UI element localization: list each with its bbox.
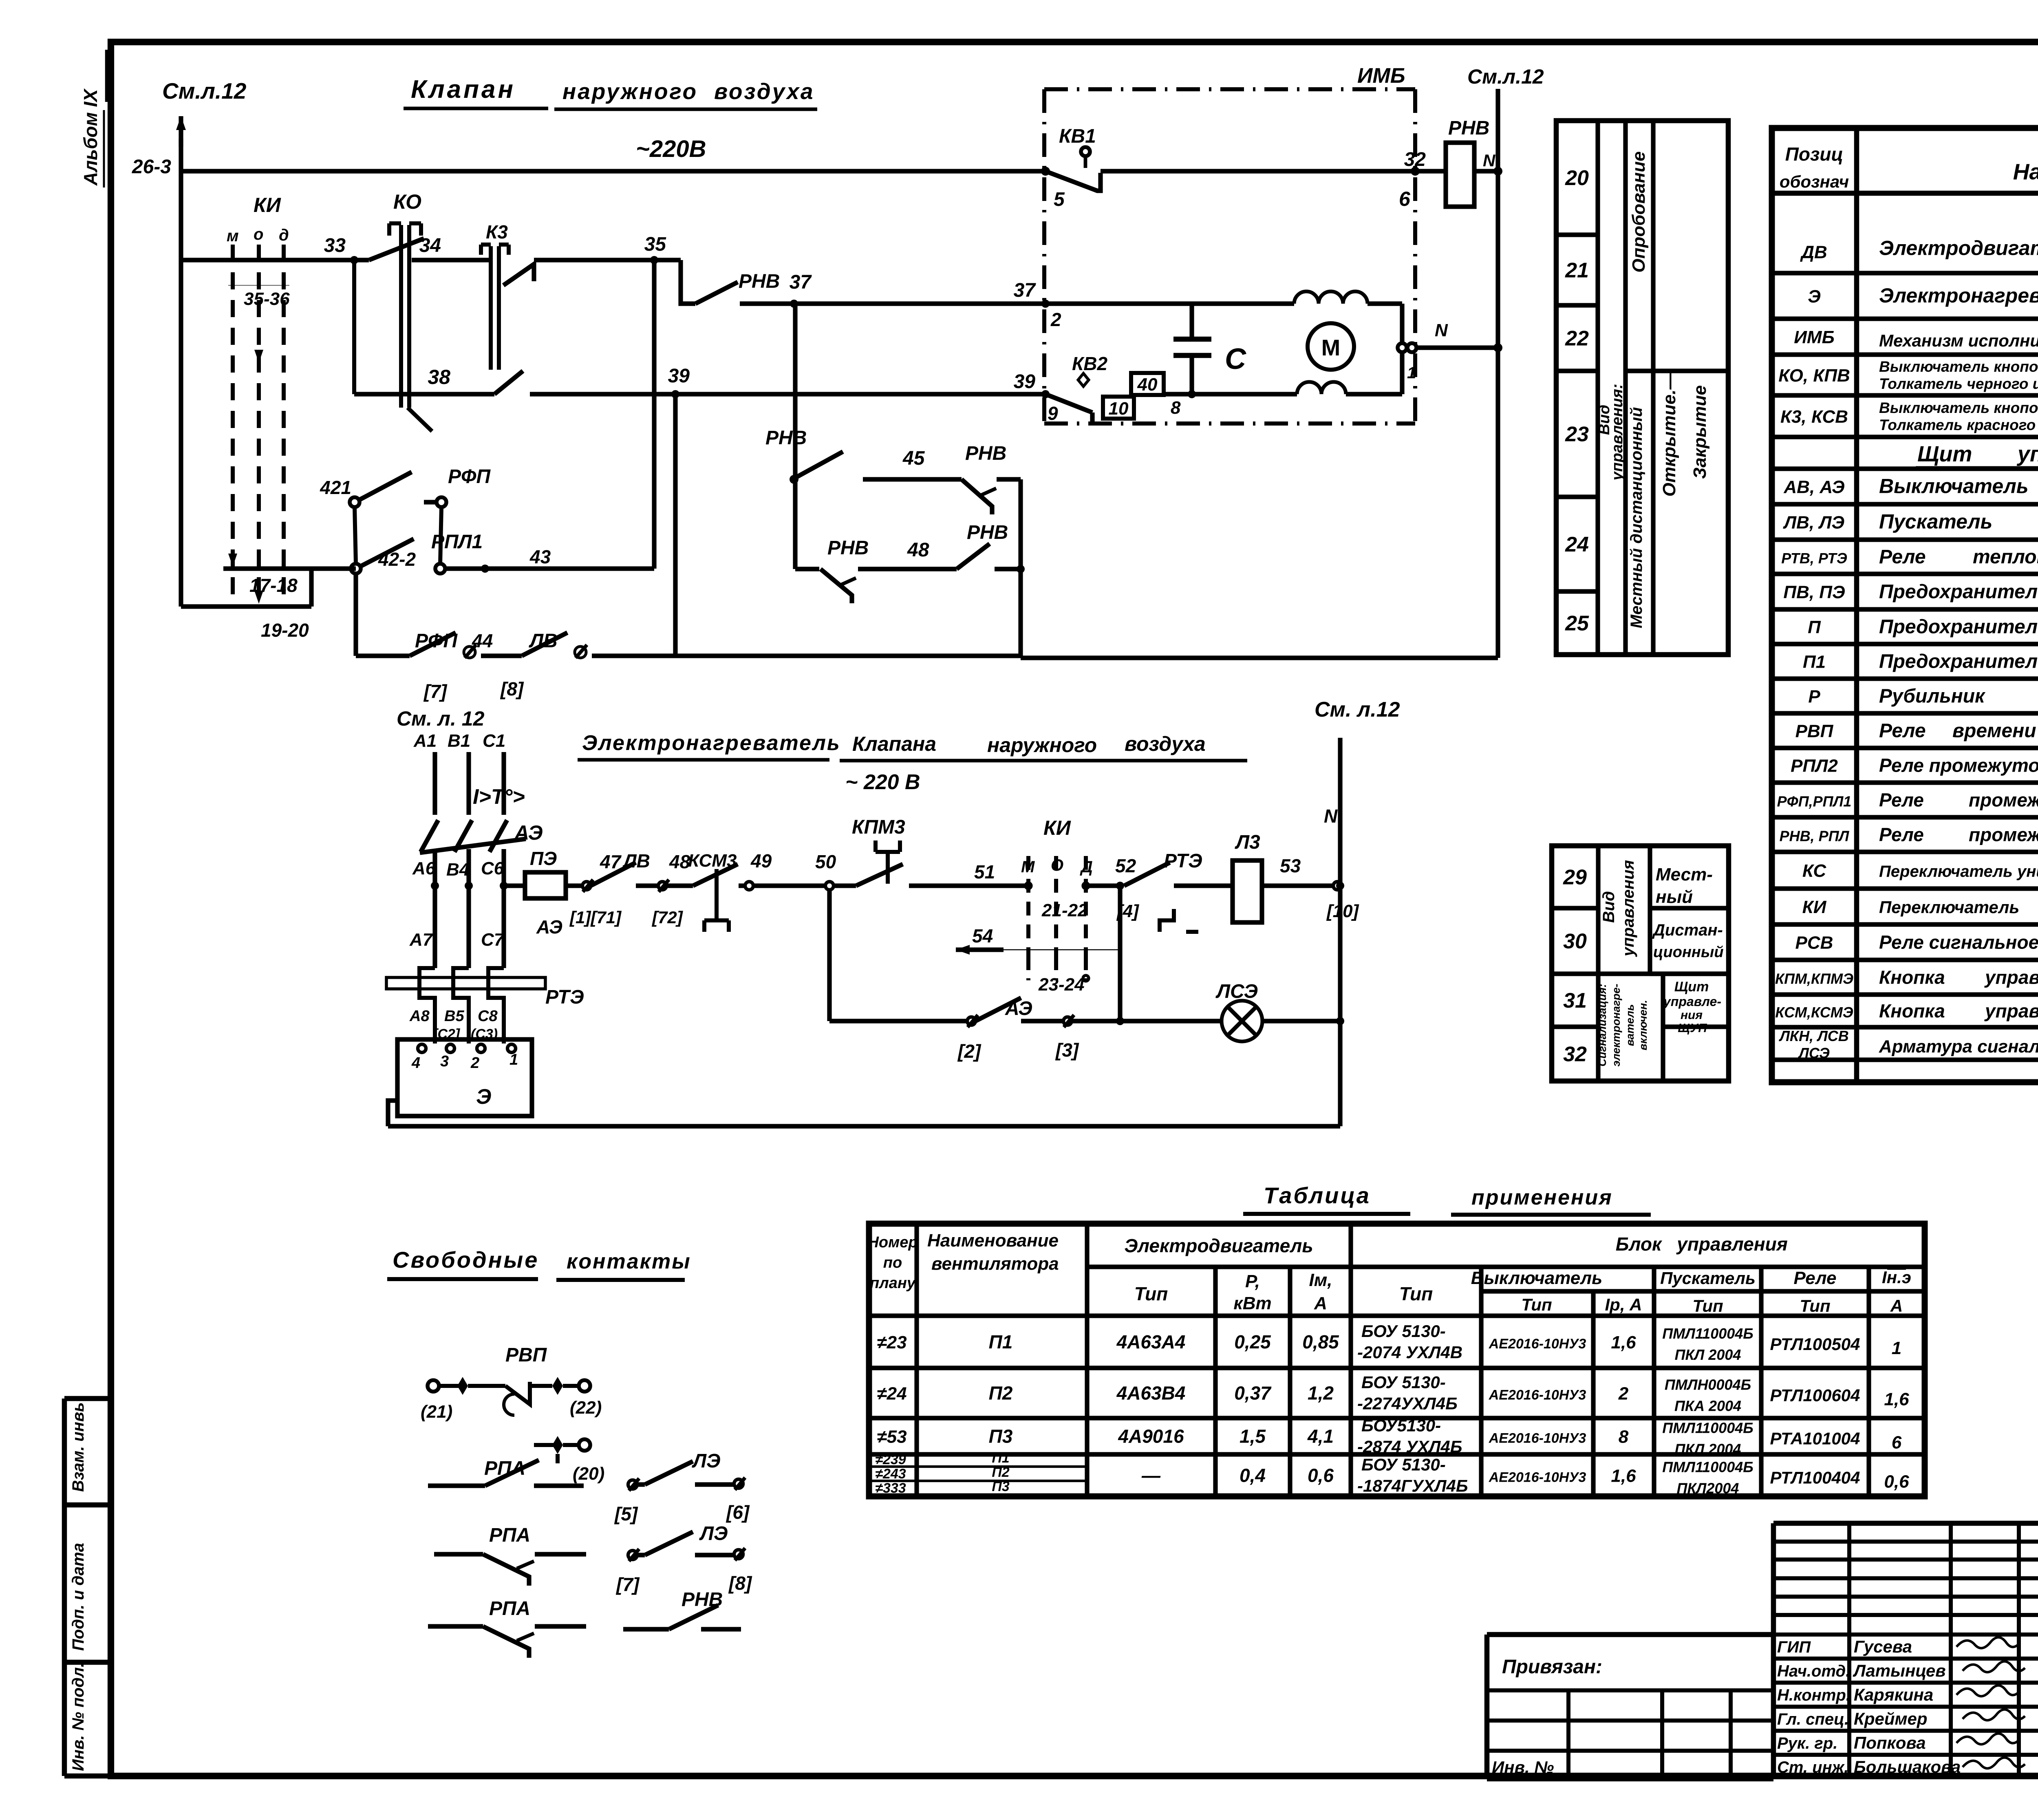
svg-text:Э: Э (1808, 287, 1821, 307)
svg-text:П3: П3 (989, 1426, 1013, 1447)
svg-text:1: 1 (509, 1051, 518, 1068)
svg-text:Реле промежуточное: Реле промежуточное (1879, 755, 2038, 776)
svg-text:БОУ5130-: БОУ5130- (1361, 1416, 1441, 1435)
svg-text:Механизм исполнительный: Механизм исполнительный (1879, 331, 2038, 350)
svg-text:ПЭ: ПЭ (530, 848, 557, 869)
svg-text:С7: С7 (481, 930, 505, 950)
svg-text:ПМЛ110004Б: ПМЛ110004Б (1662, 1325, 1753, 1342)
svg-text:Электронагреватель: Электронагреватель (582, 731, 841, 755)
svg-text:А7: А7 (409, 930, 434, 950)
svg-text:РНВ: РНВ (765, 427, 807, 449)
svg-text:38: 38 (428, 366, 450, 388)
svg-text:РНВ: РНВ (739, 271, 780, 292)
svg-text:А1: А1 (413, 731, 437, 751)
svg-text:-1874ГУХЛ4Б: -1874ГУХЛ4Б (1357, 1476, 1468, 1496)
svg-text:8: 8 (1619, 1427, 1629, 1447)
svg-text:АЕ2016-10НУ3: АЕ2016-10НУ3 (1489, 1431, 1586, 1446)
svg-text:А6: А6 (412, 858, 436, 878)
svg-text:6: 6 (1399, 188, 1411, 210)
svg-text:5: 5 (1054, 189, 1065, 210)
svg-text:21-22: 21-22 (1041, 900, 1088, 920)
svg-text:Э: Э (476, 1085, 491, 1109)
svg-text:управления:: управления: (1609, 384, 1626, 481)
svg-text:КВ2: КВ2 (1072, 353, 1107, 374)
svg-text:-2274УХЛ4Б: -2274УХЛ4Б (1357, 1394, 1458, 1413)
svg-text:Таблица: Таблица (1264, 1182, 1371, 1208)
svg-text:≠243: ≠243 (875, 1466, 906, 1482)
svg-text:22: 22 (1565, 327, 1589, 351)
svg-text:АЕ2016-10НУ3: АЕ2016-10НУ3 (1489, 1336, 1586, 1352)
svg-text:30: 30 (1563, 930, 1587, 953)
svg-text:6: 6 (1892, 1433, 1902, 1453)
svg-text:43: 43 (529, 546, 551, 567)
svg-text:кВт: кВт (1233, 1293, 1271, 1313)
svg-text:ПМЛ110004Б: ПМЛ110004Б (1662, 1459, 1753, 1476)
svg-text:КИ: КИ (1043, 816, 1071, 839)
svg-text:4А63В4: 4А63В4 (1116, 1383, 1186, 1404)
svg-text:C: C (1225, 343, 1246, 375)
svg-text:[2]: [2] (957, 1041, 982, 1062)
svg-text:23-24: 23-24 (1038, 975, 1085, 995)
svg-text:плану: плану (870, 1275, 916, 1292)
svg-text:А8: А8 (409, 1008, 430, 1025)
svg-text:50: 50 (815, 851, 836, 872)
svg-text:П: П (1808, 618, 1821, 638)
svg-text:421: 421 (320, 477, 351, 498)
svg-text:Местный дистанционный: Местный дистанционный (1628, 407, 1645, 629)
svg-text:Н.контр.: Н.контр. (1777, 1686, 1851, 1704)
svg-text:ЛЭ: ЛЭ (692, 1450, 720, 1472)
svg-text:9: 9 (1048, 403, 1058, 424)
svg-text:48: 48 (669, 851, 690, 872)
svg-text:Реле: Реле (1879, 790, 1924, 811)
svg-text:I>T°>: I>T°> (473, 785, 525, 809)
svg-text:Тип: Тип (1134, 1283, 1168, 1304)
svg-text:ватель: ватель (1624, 1004, 1636, 1046)
svg-text:вентилятора: вентилятора (931, 1254, 1059, 1274)
svg-text:≠333: ≠333 (875, 1480, 906, 1496)
svg-text:Наименование: Наименование (927, 1231, 1059, 1251)
svg-text:-2874 УХЛ4Б: -2874 УХЛ4Б (1357, 1437, 1462, 1456)
svg-text:Закрытие: Закрытие (1690, 385, 1710, 479)
svg-text:Iн.э: Iн.э (1882, 1268, 1911, 1287)
svg-text:управле-: управле- (1663, 994, 1721, 1009)
svg-text:С8: С8 (478, 1008, 498, 1025)
svg-text:Подп. и дата: Подп. и дата (69, 1543, 87, 1651)
svg-text:Электронагреватель: Электронагреватель (1879, 284, 2038, 307)
svg-text:Альбом IХ: Альбом IХ (80, 88, 101, 186)
svg-text:КПМ,КПМЭ: КПМ,КПМЭ (1775, 971, 1853, 987)
svg-text:~220В: ~220В (636, 136, 706, 162)
svg-text:О: О (1051, 856, 1063, 874)
svg-text:П1: П1 (1803, 652, 1826, 672)
svg-text:электронагре-: электронагре- (1610, 984, 1622, 1066)
svg-text:РПА: РПА (489, 1524, 530, 1546)
svg-text:Выключатель кнопочново: Выключатель кнопочново КЕ.011, исп.2 (1879, 358, 2038, 375)
svg-text:А: А (1890, 1296, 1903, 1315)
svg-text:1: 1 (1892, 1338, 1901, 1358)
svg-text:А: А (1314, 1293, 1327, 1313)
svg-text:промежуточное: промежуточное (1969, 824, 2038, 845)
svg-text:ПВ, ПЭ: ПВ, ПЭ (1783, 582, 1845, 602)
svg-text:Реле: Реле (1879, 720, 1926, 742)
svg-text:Выключатель: Выключатель (1471, 1268, 1603, 1288)
svg-text:Мест-: Мест- (1656, 865, 1713, 885)
svg-text:ЛВ, ЛЭ: ЛВ, ЛЭ (1783, 513, 1844, 533)
svg-text:РВП: РВП (505, 1344, 547, 1366)
svg-text:ЛКН, ЛСВ: ЛКН, ЛСВ (1778, 1028, 1849, 1044)
svg-text:[5]: [5] (614, 1503, 638, 1524)
svg-text:4А63А4: 4А63А4 (1116, 1331, 1186, 1352)
svg-text:ный: ный (1656, 887, 1693, 907)
svg-text:ПМЛН0004Б: ПМЛН0004Б (1665, 1377, 1751, 1393)
svg-text:Толкатель черного цвета ,: Толкатель черного цвета , надпись „Пуск" (1879, 375, 2038, 392)
svg-text:34: 34 (419, 235, 441, 256)
svg-text:Кнопка: Кнопка (1879, 1000, 1945, 1021)
svg-text:Предохранитель: Предохранитель (1879, 651, 2038, 673)
svg-text:37: 37 (1014, 280, 1037, 301)
svg-text:Толкатель красного цвета,: Толкатель красного цвета, надпись„Стоп" (1879, 417, 2038, 433)
svg-text:Тип: Тип (1800, 1296, 1830, 1315)
svg-text:управления: управления (1619, 860, 1637, 957)
svg-text:4: 4 (411, 1054, 420, 1072)
svg-text:Привязан:: Привязан: (1502, 1656, 1602, 1678)
svg-text:РТЛ100504: РТЛ100504 (1770, 1335, 1860, 1354)
svg-text:Свободные: Свободные (393, 1247, 539, 1273)
svg-text:1,6: 1,6 (1611, 1332, 1636, 1352)
svg-text:3: 3 (440, 1053, 449, 1070)
svg-text:4А9016: 4А9016 (1118, 1426, 1184, 1447)
svg-text:Латынцев: Латынцев (1853, 1661, 1946, 1680)
svg-text:Номер: Номер (867, 1234, 918, 1251)
svg-text:[8]: [8] (500, 678, 524, 699)
svg-text:0,25: 0,25 (1234, 1331, 1271, 1352)
svg-text:4,1: 4,1 (1307, 1426, 1334, 1447)
svg-text:Карякина: Карякина (1854, 1685, 1933, 1704)
svg-text:53: 53 (1280, 855, 1301, 876)
svg-text:Нач.отд.: Нач.отд. (1777, 1662, 1850, 1680)
svg-text:П2: П2 (989, 1383, 1013, 1404)
svg-text:ИМБ: ИМБ (1357, 64, 1405, 88)
svg-text:д: д (279, 226, 289, 244)
svg-text:Ст. инж.: Ст. инж. (1777, 1758, 1848, 1776)
svg-text:1: 1 (1407, 364, 1416, 382)
svg-text:РТА101004: РТА101004 (1770, 1429, 1860, 1448)
svg-text:26-3: 26-3 (132, 156, 171, 178)
svg-text:РПЛ2: РПЛ2 (1791, 756, 1838, 776)
svg-text:управления: управления (2016, 442, 2038, 466)
svg-text:Выключатель: Выключатель (1879, 475, 2029, 498)
svg-text:[6]: [6] (726, 1502, 750, 1523)
svg-text:наружного: наружного (987, 734, 1097, 757)
svg-text:КО, КПВ: КО, КПВ (1778, 366, 1850, 386)
svg-text:Пускатель: Пускатель (1660, 1268, 1756, 1288)
svg-text:В5: В5 (444, 1008, 464, 1025)
svg-text:ИМБ: ИМБ (1794, 327, 1834, 347)
svg-text:Щит: Щит (1917, 442, 1972, 466)
svg-text:Электродвигатель: Электродвигатель (1879, 237, 2038, 260)
svg-text:РТЛ100404: РТЛ100404 (1770, 1468, 1860, 1487)
svg-text:33: 33 (324, 235, 346, 256)
svg-text:Реле: Реле (1793, 1268, 1836, 1288)
svg-text:РТВ, РТЭ: РТВ, РТЭ (1781, 550, 1847, 567)
svg-text:К3, КСВ: К3, КСВ (1780, 407, 1848, 427)
svg-text:Щит: Щит (1674, 979, 1709, 995)
svg-text:-2074 УХЛ4В: -2074 УХЛ4В (1357, 1343, 1462, 1362)
svg-text:Переключатель: Переключатель (1879, 898, 2019, 917)
svg-text:21: 21 (1565, 259, 1589, 282)
svg-text:Взам. инвь: Взам. инвь (69, 1402, 87, 1492)
svg-text:44: 44 (472, 630, 493, 651)
svg-text:БОУ 5130-: БОУ 5130- (1361, 1321, 1446, 1341)
svg-text:Тип: Тип (1399, 1283, 1433, 1304)
svg-text:20: 20 (1565, 166, 1589, 190)
svg-text:Дистан-: Дистан- (1652, 921, 1723, 939)
svg-text:0,85: 0,85 (1302, 1331, 1339, 1352)
svg-text:1,6: 1,6 (1884, 1390, 1909, 1410)
svg-text:1,5: 1,5 (1240, 1426, 1266, 1447)
svg-text:Сигнализация:: Сигнализация: (1596, 984, 1608, 1067)
svg-text:РНВ: РНВ (965, 443, 1006, 464)
svg-text:Наименование: Наименование (2013, 159, 2038, 184)
svg-text:РПА: РПА (489, 1598, 530, 1619)
svg-text:управления: управления (1984, 967, 2038, 988)
svg-text:45: 45 (902, 448, 925, 469)
svg-text:Реле: Реле (1879, 546, 1926, 568)
svg-text:ЛВ: ЛВ (529, 630, 558, 652)
svg-text:РНВ: РНВ (1448, 117, 1489, 139)
svg-text:≠23: ≠23 (877, 1332, 907, 1352)
svg-text:С1: С1 (483, 731, 505, 751)
svg-text:Арматура сигнальная: Арматура сигнальная (1879, 1037, 2038, 1057)
svg-text:N: N (1483, 151, 1496, 170)
svg-text:ПКЛ 2004: ПКЛ 2004 (1675, 1441, 1741, 1458)
svg-text:В4: В4 (446, 860, 469, 880)
svg-text:контакты: контакты (567, 1250, 691, 1273)
svg-text:—: — (1141, 1465, 1161, 1486)
svg-text:ПКА 2004: ПКА 2004 (1674, 1398, 1741, 1414)
svg-text:39: 39 (668, 365, 690, 387)
svg-text:РФП,РПЛ1: РФП,РПЛ1 (1777, 793, 1852, 810)
svg-text:[7]: [7] (615, 1574, 640, 1595)
svg-text:(22): (22) (570, 1398, 602, 1418)
svg-text:РСВ: РСВ (1795, 933, 1833, 953)
svg-text:10: 10 (1109, 399, 1129, 419)
svg-text:2: 2 (1050, 309, 1061, 330)
svg-text:0,6: 0,6 (1308, 1465, 1334, 1486)
svg-text:Д: Д (1080, 858, 1093, 876)
svg-text:Тип: Тип (1521, 1295, 1552, 1314)
svg-text:промежуточное: промежуточное (1969, 790, 2038, 811)
svg-text:Большакова: Большакова (1854, 1757, 1961, 1776)
svg-text:управления: управления (1676, 1233, 1788, 1255)
svg-text:В1: В1 (448, 731, 470, 751)
svg-text:N: N (1324, 805, 1338, 827)
svg-text:[8]: [8] (728, 1573, 752, 1594)
svg-text:П1: П1 (992, 1450, 1009, 1466)
svg-text:П3: П3 (992, 1479, 1009, 1494)
svg-text:применения: применения (1471, 1186, 1613, 1209)
svg-text:ПКЛ2004: ПКЛ2004 (1677, 1480, 1739, 1497)
svg-text:0,4: 0,4 (1240, 1465, 1266, 1486)
svg-text:АЭ: АЭ (536, 916, 562, 938)
svg-text:40: 40 (1137, 375, 1158, 395)
svg-text:ния: ния (1681, 1008, 1703, 1022)
svg-text:См. л. 12: См. л. 12 (397, 707, 485, 730)
svg-text:Предохранитель: Предохранитель (1879, 581, 2038, 603)
svg-text:24: 24 (1565, 533, 1589, 556)
svg-text:≠53: ≠53 (877, 1427, 907, 1447)
svg-text:Клапана: Клапана (852, 732, 936, 755)
svg-text:19-20: 19-20 (261, 620, 309, 641)
svg-text:Клапан: Клапан (411, 75, 516, 104)
svg-text:49: 49 (750, 850, 772, 871)
svg-text:≠24: ≠24 (877, 1384, 907, 1404)
svg-text:воздуха: воздуха (1125, 732, 1206, 755)
svg-text:наружного: наружного (562, 79, 698, 104)
svg-text:П2: П2 (992, 1465, 1009, 1480)
svg-text:См.л.12: См.л.12 (162, 78, 247, 104)
svg-text:Iм,: Iм, (1309, 1270, 1332, 1290)
svg-text:25: 25 (1565, 612, 1589, 635)
svg-text:Блок: Блок (1616, 1233, 1663, 1255)
svg-text:8: 8 (1171, 398, 1181, 418)
svg-text:(21): (21) (421, 1402, 452, 1422)
svg-text:ГИП: ГИП (1777, 1638, 1811, 1656)
svg-text:управления: управления (1984, 1000, 2038, 1021)
svg-text:АВ, АЭ: АВ, АЭ (1783, 477, 1844, 497)
svg-text:ЛСЭ: ЛСЭ (1215, 981, 1258, 1002)
svg-text:АЕ2016-10НУ3: АЕ2016-10НУ3 (1489, 1470, 1586, 1485)
svg-text:тепловое: тепловое (1973, 546, 2038, 568)
svg-text:Открытие.—: Открытие.— (1659, 371, 1679, 497)
svg-text:42-2: 42-2 (378, 549, 416, 570)
svg-text:М: М (1021, 858, 1035, 876)
svg-text:Пускатель: Пускатель (1879, 510, 1992, 533)
svg-text:≠239: ≠239 (875, 1452, 906, 1467)
svg-text:[72]: [72] (651, 908, 684, 927)
svg-text:Инв. № подл.: Инв. № подл. (69, 1663, 87, 1771)
svg-text:ЛВ: ЛВ (622, 850, 650, 871)
svg-text:37: 37 (790, 271, 812, 293)
svg-text:воздуха: воздуха (714, 79, 815, 104)
svg-text:РНВ: РНВ (827, 537, 869, 559)
svg-text:51: 51 (974, 861, 995, 882)
svg-text:РНВ: РНВ (967, 522, 1008, 543)
svg-text:Позиц: Позиц (1785, 143, 1843, 165)
svg-text:[3]: [3] (1055, 1039, 1079, 1061)
svg-text:Креймер: Креймер (1854, 1709, 1928, 1728)
svg-text:N: N (1435, 320, 1448, 340)
svg-text:0,37: 0,37 (1234, 1383, 1272, 1404)
svg-text:КС: КС (1802, 861, 1826, 881)
svg-text:о: о (254, 225, 263, 243)
svg-text:КПМ3: КПМ3 (852, 816, 905, 838)
svg-text:БОУ 5130-: БОУ 5130- (1361, 1455, 1446, 1474)
svg-text:1,6: 1,6 (1611, 1466, 1636, 1486)
svg-text:АЭ: АЭ (1005, 998, 1032, 1019)
svg-text:52: 52 (1115, 855, 1136, 876)
svg-text:29: 29 (1563, 866, 1587, 889)
svg-text:Рук. гр.: Рук. гр. (1777, 1734, 1837, 1752)
svg-text:31: 31 (1563, 989, 1587, 1013)
svg-text:ДВ: ДВ (1800, 243, 1827, 263)
svg-text:БОУ 5130-: БОУ 5130- (1361, 1373, 1446, 1392)
svg-text:ЩУП: ЩУП (1678, 1021, 1707, 1035)
svg-text:[7]: [7] (423, 681, 448, 702)
svg-text:РФП: РФП (415, 630, 458, 652)
svg-text:ПКЛ 2004: ПКЛ 2004 (1675, 1346, 1741, 1363)
svg-text:Вид: Вид (1600, 891, 1618, 923)
svg-text:РФП: РФП (448, 466, 491, 488)
svg-text:Гусева: Гусева (1854, 1637, 1912, 1656)
svg-text:КИ: КИ (254, 194, 281, 216)
svg-text:Р,: Р, (1245, 1271, 1260, 1291)
svg-text:32: 32 (1563, 1043, 1587, 1066)
svg-text:Iр, А: Iр, А (1605, 1295, 1642, 1314)
svg-text:54: 54 (972, 925, 993, 946)
svg-text:Электродвигатель: Электродвигатель (1124, 1235, 1313, 1256)
svg-text:Л3: Л3 (1235, 832, 1260, 853)
svg-text:48: 48 (907, 539, 929, 561)
svg-text:РТЭ: РТЭ (545, 986, 584, 1008)
svg-text:РНВ, РПЛ: РНВ, РПЛ (1780, 828, 1850, 845)
svg-text:ЛЭ: ЛЭ (699, 1523, 728, 1544)
svg-text:АЕ2016-10НУ3: АЕ2016-10НУ3 (1489, 1388, 1586, 1403)
svg-text:М: М (1321, 335, 1341, 360)
svg-text:м: м (227, 227, 239, 245)
svg-text:2: 2 (470, 1054, 479, 1072)
svg-text:времени: времени (1952, 720, 2036, 742)
svg-text:С6: С6 (481, 858, 504, 878)
svg-text:Предохранитель: Предохранитель (1879, 616, 2038, 638)
svg-text:Р: Р (1808, 687, 1820, 707)
svg-text:включен.: включен. (1637, 1000, 1649, 1050)
svg-text:по: по (883, 1254, 902, 1271)
svg-text:2: 2 (1618, 1384, 1629, 1404)
svg-text:КСМ3: КСМ3 (688, 851, 737, 871)
svg-text:РТЭ: РТЭ (1164, 850, 1202, 872)
svg-text:Выключатель кнопочный: Выключатель кнопочный КЕО11 ,исп.2 (1879, 399, 2038, 416)
svg-text:КИ: КИ (1802, 897, 1827, 917)
svg-text:Опробование: Опробование (1629, 151, 1649, 272)
svg-text:ПМЛ110004Б: ПМЛ110004Б (1662, 1420, 1753, 1436)
svg-text:Переключатель универсальный ПК: Переключатель универсальный ПКУ3-160И201… (1879, 863, 2038, 880)
svg-text:П1: П1 (989, 1331, 1013, 1352)
svg-text:обознач: обознач (1780, 172, 1849, 191)
svg-text:23: 23 (1565, 423, 1589, 446)
svg-text:Тип: Тип (1692, 1296, 1723, 1315)
svg-text:Инв. №: Инв. № (1492, 1758, 1554, 1777)
svg-text:Реле: Реле (1879, 824, 1924, 845)
svg-text:[1][71]: [1][71] (569, 908, 622, 927)
svg-text:РПЛ1: РПЛ1 (431, 531, 483, 553)
svg-text:Реле сигнальное: Реле сигнальное (1879, 932, 2038, 953)
svg-text:РТЛ100604: РТЛ100604 (1770, 1386, 1860, 1405)
svg-text:(20): (20) (573, 1464, 604, 1484)
svg-text:35-36: 35-36 (244, 289, 290, 309)
svg-text:РВП: РВП (1795, 721, 1834, 741)
svg-text:ционный: ционный (1653, 944, 1724, 961)
svg-text:[10]: [10] (1326, 901, 1359, 921)
svg-text:Гл. спец.: Гл. спец. (1777, 1710, 1849, 1728)
svg-text:См. л.12: См. л.12 (1315, 698, 1400, 721)
svg-text:КВ1: КВ1 (1059, 126, 1096, 147)
svg-text:КСМ,КСМЭ: КСМ,КСМЭ (1775, 1004, 1853, 1021)
svg-text:Кнопка: Кнопка (1879, 967, 1945, 988)
svg-text:Попкова: Попкова (1854, 1733, 1926, 1752)
svg-text:39: 39 (1014, 371, 1036, 393)
